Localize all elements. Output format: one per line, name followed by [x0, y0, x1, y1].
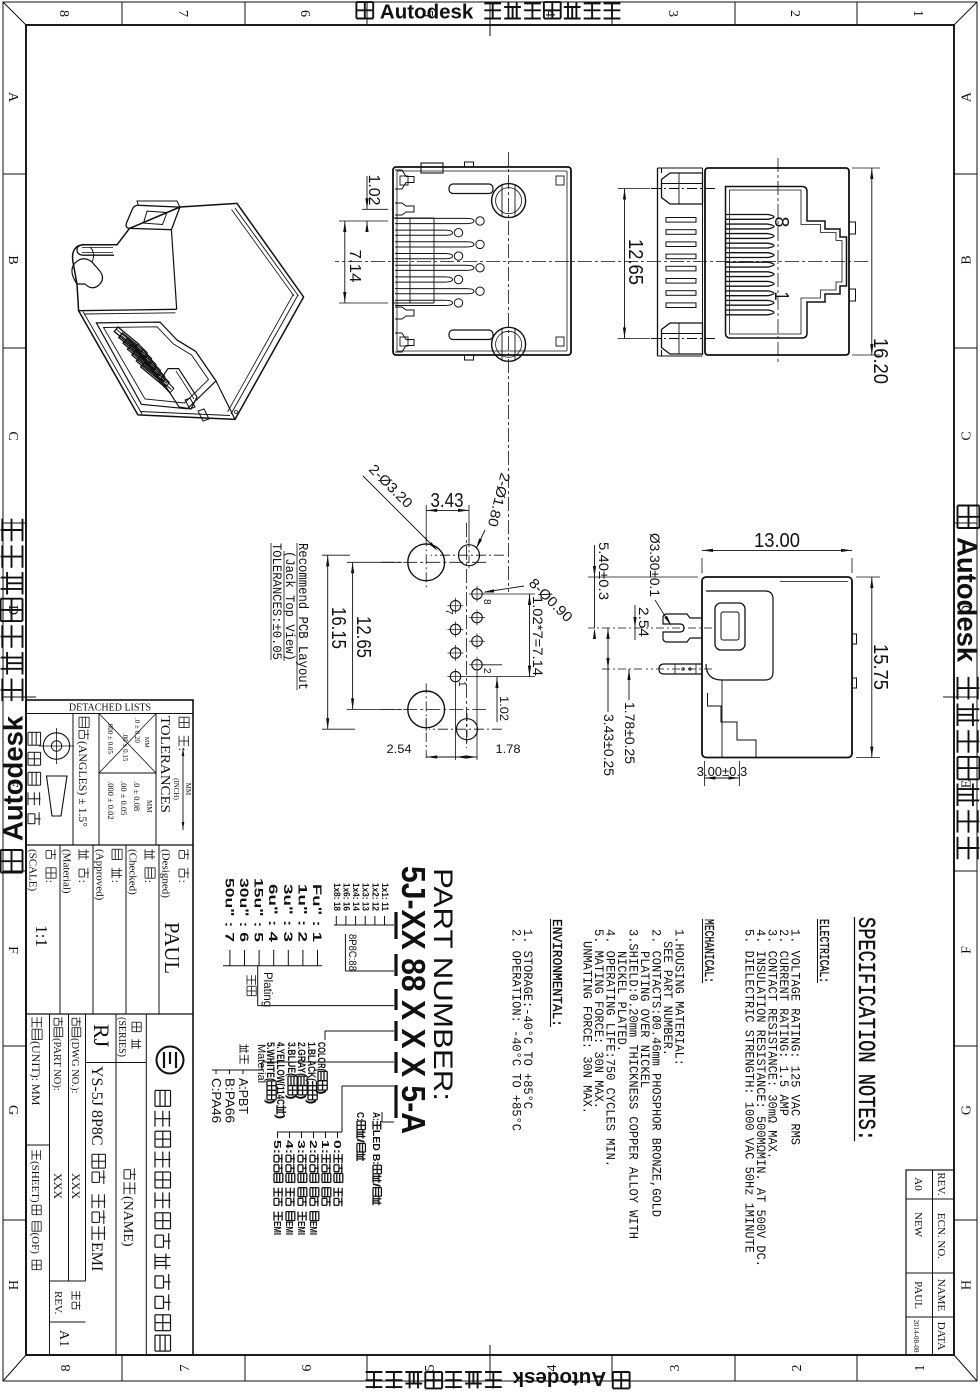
- svg-text:50u" : 7: 50u" : 7: [222, 878, 234, 942]
- svg-text:C: C: [5, 431, 20, 440]
- svg-text:1x4: 14: 1x4: 14: [351, 883, 361, 911]
- svg-text:MM: MM: [145, 800, 153, 813]
- svg-text:2014-08-08: 2014-08-08: [912, 1320, 921, 1353]
- svg-text:2.54: 2.54: [636, 607, 651, 638]
- svg-text:5J-XX 88 X X X 5-A: 5J-XX 88 X X X 5-A: [395, 866, 432, 1134]
- svg-text:7: 7: [178, 1365, 193, 1372]
- svg-text:Fu" : 1: Fu" : 1: [310, 884, 322, 943]
- svg-text:1: 1: [770, 292, 792, 301]
- svg-text:2: 2: [787, 10, 802, 17]
- svg-text:EMI: EMI: [88, 1242, 105, 1271]
- svg-text:1x6: 16: 1x6: 16: [341, 883, 351, 911]
- svg-text:PAUL: PAUL: [160, 922, 184, 974]
- svg-text:2.54: 2.54: [387, 742, 412, 756]
- svg-text:UNMATING FORCE: 30N MAX.: UNMATING FORCE: 30N MAX.: [580, 941, 595, 1114]
- svg-text:1x2: 12: 1x2: 12: [370, 883, 380, 911]
- svg-text:15.75: 15.75: [869, 644, 891, 690]
- svg-text:1.78: 1.78: [496, 742, 521, 756]
- svg-text:/: /: [370, 1183, 381, 1187]
- svg-text:F: F: [5, 946, 20, 954]
- svg-text:16.20: 16.20: [869, 338, 891, 384]
- svg-text:8: 8: [770, 217, 792, 228]
- svg-text:15u" : 5: 15u" : 5: [252, 878, 264, 943]
- svg-text:1: 1: [910, 10, 925, 17]
- svg-text:NAME: NAME: [935, 1279, 947, 1312]
- svg-text:(Approved): (Approved): [94, 849, 106, 901]
- svg-text::: :: [76, 880, 90, 883]
- svg-text:Autodesk: Autodesk: [512, 1367, 606, 1390]
- svg-text:4:: 4:: [283, 1140, 295, 1154]
- svg-text:8: 8: [481, 599, 492, 605]
- svg-text::: :: [176, 880, 190, 883]
- svg-text:H: H: [5, 1280, 20, 1290]
- svg-text:.00 ± 0.05: .00 ± 0.05: [119, 781, 129, 815]
- svg-text:3: 3: [668, 1365, 683, 1372]
- svg-text:B: B: [5, 255, 20, 264]
- svg-text:1:1: 1:1: [32, 925, 51, 947]
- svg-text:7: 7: [443, 609, 454, 615]
- svg-text:A0: A0: [912, 1177, 924, 1191]
- svg-text:6: 6: [297, 10, 312, 17]
- svg-text:REV.: REV.: [935, 1172, 947, 1196]
- svg-text:MM: MM: [184, 783, 192, 796]
- svg-text:5.40±0.3: 5.40±0.3: [596, 542, 611, 600]
- svg-text:7.14: 7.14: [346, 250, 363, 283]
- svg-text:(SCALE): (SCALE): [27, 849, 39, 892]
- svg-text:2:: 2:: [307, 1140, 319, 1154]
- svg-text:Ø3.30±0.1: Ø3.30±0.1: [647, 533, 662, 597]
- svg-text:(PART NO):: (PART NO):: [51, 1038, 62, 1091]
- svg-text:5:: 5:: [271, 1140, 283, 1154]
- svg-text:Autodesk: Autodesk: [952, 537, 980, 663]
- svg-text:.0 ± 0.08: .0 ± 0.08: [132, 781, 142, 811]
- svg-text:Autodesk: Autodesk: [380, 1, 474, 24]
- svg-text:PAUL: PAUL: [912, 1281, 924, 1309]
- svg-text:A:: A:: [370, 1112, 381, 1121]
- svg-text:13.00: 13.00: [754, 530, 800, 552]
- svg-text:(SHEET): (SHEET): [29, 1161, 41, 1203]
- svg-text:12.65: 12.65: [352, 616, 374, 658]
- svg-text:1.78±0.25: 1.78±0.25: [622, 702, 637, 764]
- svg-text:.0 ± 0.20: .0 ± 0.20: [133, 718, 141, 743]
- svg-text:(SERIES): (SERIES): [116, 1017, 127, 1057]
- svg-text:1.02*7=7.14: 1.02*7=7.14: [530, 596, 545, 677]
- svg-text:XXX: XXX: [69, 1173, 83, 1199]
- svg-text:C:: C:: [354, 1112, 365, 1121]
- svg-text:1.02: 1.02: [497, 696, 511, 721]
- svg-text:(ANGLES) ± 1.5°: (ANGLES) ± 1.5°: [76, 741, 90, 827]
- svg-text:C:PA46: C:PA46: [209, 1078, 223, 1123]
- svg-text:1: 1: [913, 1365, 928, 1372]
- svg-text:MM: MM: [143, 737, 149, 748]
- svg-text:30u" : 6: 30u" : 6: [237, 878, 249, 942]
- svg-text:1: 1: [456, 681, 467, 687]
- svg-text:(DWG NO.):: (DWG NO.):: [69, 1038, 80, 1093]
- svg-text:G: G: [5, 1105, 20, 1115]
- svg-text:B: B: [960, 255, 975, 264]
- svg-text:(INCH): (INCH): [172, 778, 180, 800]
- svg-text:RJ: RJ: [89, 1024, 114, 1048]
- svg-text:(OF): (OF): [29, 1233, 41, 1255]
- svg-text:12.65: 12.65: [624, 239, 646, 285]
- svg-text:Material: Material: [255, 1044, 267, 1083]
- svg-text:): ): [274, 1114, 286, 1119]
- svg-text:XXX: XXX: [51, 1173, 65, 1199]
- svg-text:.000 ± 0.02: .000 ± 0.02: [106, 781, 116, 820]
- svg-text:G: G: [960, 1105, 975, 1115]
- svg-text:3.00±0.3: 3.00±0.3: [697, 764, 748, 779]
- svg-text::: :: [109, 880, 123, 883]
- svg-text:(Designed): (Designed): [160, 849, 172, 898]
- svg-text:A:PBT: A:PBT: [236, 1078, 250, 1114]
- svg-text:.000 ± 0.05: .000 ± 0.05: [106, 722, 114, 754]
- svg-text:DATA: DATA: [935, 1322, 947, 1351]
- svg-text:NEW: NEW: [912, 1212, 924, 1238]
- svg-text:8: 8: [56, 10, 71, 17]
- svg-text:1x3: 13: 1x3: 13: [361, 883, 371, 911]
- svg-text:): ): [305, 1099, 317, 1104]
- svg-text:TOLERANCES: TOLERANCES: [158, 716, 173, 813]
- svg-text:(Material): (Material): [61, 849, 73, 894]
- svg-text:6: 6: [300, 1365, 315, 1372]
- svg-text:.00 ± 0.15: .00 ± 0.15: [121, 733, 129, 762]
- svg-text:EMI: EMI: [295, 1221, 307, 1235]
- svg-text:7: 7: [175, 10, 190, 17]
- svg-text:EMI: EMI: [283, 1221, 295, 1235]
- svg-text:5: 5: [423, 1365, 438, 1372]
- svg-text:1.02: 1.02: [365, 175, 382, 206]
- svg-text:2: 2: [790, 1365, 805, 1372]
- svg-text:REV.: REV.: [52, 1291, 64, 1315]
- svg-text:EMI: EMI: [307, 1221, 319, 1235]
- svg-text:B:PA66: B:PA66: [223, 1078, 237, 1123]
- svg-text:3.43: 3.43: [431, 490, 464, 512]
- svg-text:(NAME): (NAME): [120, 1196, 135, 1247]
- svg-text:3:: 3:: [295, 1140, 307, 1154]
- svg-text::: :: [142, 880, 156, 883]
- svg-text:Autodesk: Autodesk: [0, 715, 29, 841]
- svg-text:DETACHED LISTS: DETACHED LISTS: [69, 703, 151, 714]
- svg-text:1u" : 2: 1u" : 2: [295, 884, 307, 942]
- svg-text:A: A: [5, 92, 20, 103]
- svg-text:YS-5J 8P8C: YS-5J 8P8C: [88, 1066, 105, 1146]
- svg-text:F: F: [960, 946, 975, 954]
- svg-text:0:: 0:: [331, 1140, 343, 1154]
- svg-text:8: 8: [59, 1365, 74, 1372]
- svg-text:C: C: [960, 431, 975, 440]
- svg-text:5. DIELECTRIC STRENGTH: 1000 V: 5. DIELECTRIC STRENGTH: 1000 VAC 50Hz 1M…: [742, 929, 757, 1253]
- svg-text:/: /: [354, 1139, 365, 1143]
- svg-text:(UNIT): MM: (UNIT): MM: [29, 1041, 43, 1106]
- svg-text::: :: [43, 880, 57, 883]
- svg-text:8P8C:88: 8P8C:88: [346, 934, 358, 971]
- svg-text:EMI: EMI: [271, 1221, 283, 1235]
- svg-text:6u" : 4: 6u" : 4: [266, 884, 278, 943]
- svg-text:1:: 1:: [319, 1140, 331, 1154]
- svg-text:LED B:: LED B:: [370, 1130, 381, 1165]
- svg-text:3u" : 3: 3u" : 3: [281, 884, 293, 942]
- svg-text:(Checked): (Checked): [127, 849, 139, 895]
- svg-text:3.43±0.25: 3.43±0.25: [601, 714, 616, 776]
- svg-text:ECN. NO.: ECN. NO.: [935, 1213, 947, 1259]
- svg-text:1x1: 11: 1x1: 11: [380, 883, 390, 911]
- svg-text:3: 3: [665, 10, 680, 17]
- svg-text:Plating: Plating: [261, 972, 273, 1007]
- svg-text:2: 2: [481, 668, 492, 674]
- svg-text:A: A: [960, 91, 975, 102]
- svg-text:): ): [264, 1099, 276, 1104]
- svg-text:H: H: [960, 1280, 975, 1290]
- svg-text:1x8: 18: 1x8: 18: [332, 883, 342, 911]
- svg-text:A1: A1: [56, 1330, 71, 1347]
- svg-text:16.15: 16.15: [327, 607, 349, 649]
- svg-text:2. OPERATION: -40°C TO +85°C: 2. OPERATION: -40°C TO +85°C: [509, 929, 524, 1131]
